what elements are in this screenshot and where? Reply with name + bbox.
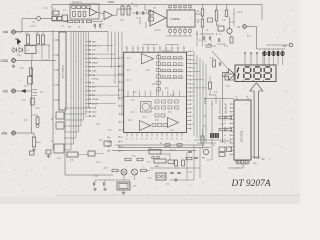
- svg-text:COM bat: COM bat: [91, 78, 99, 81]
- svg-text:1: 1: [177, 46, 178, 48]
- svg-text:22: 22: [131, 139, 133, 141]
- svg-text:10: 10: [192, 92, 194, 94]
- svg-text:Ω: Ω: [238, 25, 240, 29]
- svg-text:16: 16: [192, 67, 194, 69]
- svg-text:C3: C3: [136, 18, 138, 20]
- svg-text:20m: 20m: [107, 137, 111, 139]
- svg-text:a5: a5: [224, 123, 226, 125]
- svg-text:25: 25: [146, 139, 148, 141]
- svg-text:T5: T5: [213, 145, 215, 147]
- svg-text:C4: C4: [78, 27, 80, 29]
- svg-text:C9: C9: [53, 9, 55, 11]
- svg-text:a8: a8: [224, 135, 226, 137]
- svg-text:IC1 7106: IC1 7106: [162, 50, 172, 52]
- svg-text:200mA: 200mA: [92, 98, 99, 101]
- svg-text:a2: a2: [224, 112, 226, 114]
- svg-text:7: 7: [159, 46, 160, 48]
- svg-text:29: 29: [166, 139, 168, 141]
- svg-text:26: 26: [151, 139, 153, 141]
- svg-text:C12: C12: [226, 72, 229, 74]
- svg-text:COM: COM: [1, 59, 9, 63]
- svg-text:8: 8: [165, 46, 166, 48]
- svg-text:a7: a7: [224, 131, 226, 133]
- svg-text:R2: R2: [197, 22, 199, 24]
- svg-text:IC2 7211: IC2 7211: [240, 130, 244, 142]
- svg-text:27: 27: [156, 139, 158, 141]
- svg-text:kΩ: kΩ: [283, 45, 286, 48]
- svg-text:200u: 200u: [92, 112, 96, 114]
- svg-text:2: 2: [183, 46, 184, 48]
- svg-text:V/Ω: V/Ω: [3, 90, 9, 94]
- svg-text:D1: D1: [217, 24, 219, 26]
- svg-text:a1: a1: [224, 108, 226, 110]
- svg-text:5: 5: [147, 46, 148, 48]
- svg-text:20: 20: [192, 51, 194, 53]
- svg-text:32: 32: [181, 139, 183, 141]
- svg-text:1: 1: [126, 46, 127, 48]
- svg-text:C1: C1: [62, 26, 64, 28]
- svg-text:R0.01: R0.01: [36, 142, 41, 144]
- svg-text:R24 R23 C6: R24 R23 C6: [72, 2, 82, 4]
- svg-text:Ω20M: Ω20M: [92, 62, 98, 64]
- svg-text:2: 2: [132, 46, 133, 48]
- svg-text:24: 24: [141, 139, 143, 141]
- svg-text:200k: 200k: [92, 71, 96, 73]
- svg-text:DT 9207A: DT 9207A: [231, 179, 271, 189]
- svg-text:18: 18: [192, 59, 194, 61]
- svg-text:Cx: Cx: [27, 50, 29, 52]
- svg-text:21: 21: [126, 139, 128, 141]
- svg-text:a4: a4: [224, 119, 226, 121]
- svg-text:6: 6: [153, 46, 154, 48]
- svg-text:2k: 2k: [92, 82, 94, 84]
- svg-text:R6: R6: [36, 33, 38, 35]
- svg-text:12: 12: [192, 84, 194, 86]
- svg-text:9: 9: [171, 46, 172, 48]
- svg-text:28: 28: [161, 139, 163, 141]
- svg-text:a1: a1: [224, 143, 226, 145]
- svg-text:3: 3: [137, 46, 138, 48]
- svg-text:14: 14: [192, 76, 194, 78]
- svg-text:R5: R5: [25, 33, 27, 35]
- svg-text:C8: C8: [206, 30, 208, 32]
- svg-text:4: 4: [142, 46, 143, 48]
- svg-text:V2: V2: [219, 34, 221, 36]
- svg-text:R19: R19: [68, 27, 71, 29]
- svg-text:p: p: [236, 96, 237, 98]
- svg-text:R1: R1: [197, 11, 199, 13]
- svg-text:31: 31: [176, 139, 178, 141]
- svg-text:4069: 4069: [155, 166, 159, 168]
- svg-text:200m: 200m: [107, 141, 112, 143]
- svg-text:30: 30: [171, 139, 173, 141]
- svg-text:20mA: 20mA: [92, 102, 98, 105]
- svg-text:20A: 20A: [2, 132, 9, 136]
- svg-text:ICL8069: ICL8069: [171, 18, 181, 21]
- svg-text:R40: R40: [202, 158, 205, 160]
- svg-text:Xtal: Xtal: [148, 147, 152, 150]
- svg-text:a9: a9: [224, 139, 226, 141]
- svg-text:PL: PL: [160, 143, 162, 145]
- svg-text:TL062: TL062: [108, 2, 115, 4]
- svg-text:AUTO RANGE: AUTO RANGE: [62, 64, 65, 78]
- svg-text:a0: a0: [224, 104, 226, 106]
- svg-text:2mA: 2mA: [92, 107, 97, 110]
- svg-text:23: 23: [136, 139, 138, 141]
